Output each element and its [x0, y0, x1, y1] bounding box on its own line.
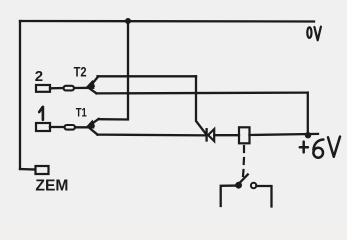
wire terminal 2 to resistor: [50, 87, 64, 90]
wire resistor to T1 base: [75, 126, 93, 128]
terminal ZEM box: [36, 166, 49, 174]
diode triangle: [208, 129, 214, 141]
wire left rail to ZEM terminal: [20, 168, 35, 171]
wire terminal 1 to resistor: [50, 126, 65, 128]
wire T1 lower branch to diode: [98, 133, 206, 136]
transistor T1: [87, 119, 99, 135]
label 0V: [307, 27, 321, 41]
switch lever: [240, 175, 248, 184]
terminal 2 box: [36, 85, 50, 92]
wire relay coil to +6V node: [250, 134, 319, 135]
node junction top rail to T1 collector riser: [125, 18, 131, 24]
wire resistor to T2 base: [74, 87, 93, 89]
label +6V: [300, 137, 340, 158]
wire T2 upper branch across to right drop: [98, 75, 197, 77]
transistor T2: [87, 77, 99, 94]
wire T2 right drop to diode node: [196, 76, 206, 134]
wire 0V top rail: [20, 20, 314, 23]
resistor (T1 base): [65, 125, 76, 130]
wire left rail: [19, 21, 21, 169]
label 1: [39, 107, 43, 120]
wire T2 lower branch to +6V drop: [96, 91, 307, 94]
wire switch right leg: [256, 186, 271, 207]
terminal 1 box: [36, 123, 50, 131]
dashed actuation link from relay to switch: [243, 146, 244, 176]
svg-text:T2: T2: [74, 64, 87, 80]
relay coil K: [239, 127, 250, 143]
wire diode to relay coil: [214, 134, 239, 136]
resistor (T2 base): [64, 86, 75, 91]
diode cathode bar: [205, 129, 207, 140]
wire +6V drop: [307, 93, 309, 135]
switch open contact: [251, 183, 256, 188]
svg-text:ZEM: ZEM: [35, 178, 68, 195]
node +6V junction: [305, 132, 311, 138]
switch common contact (closed): [236, 183, 241, 188]
wire switch left leg: [221, 186, 236, 206]
svg-text:2: 2: [35, 68, 43, 85]
wire riser from top rail down to T1 upper branch: [99, 21, 129, 120]
svg-text:T1: T1: [76, 106, 87, 120]
